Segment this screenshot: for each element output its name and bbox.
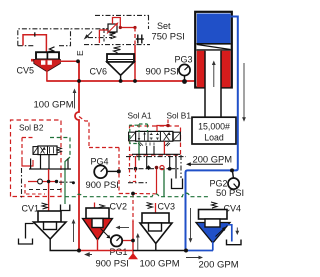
svg-text:Sol B2: Sol B2 xyxy=(19,123,44,133)
green pilot stubs above valve A1 xyxy=(130,124,148,144)
svg-text:CV6: CV6 xyxy=(90,67,108,77)
relief pilot loop red xyxy=(99,18,135,44)
Sol A1 B1 enclosure red dashed xyxy=(130,126,181,155)
svg-text:PG3: PG3 xyxy=(175,55,193,65)
junction dots bottom xyxy=(77,249,81,253)
pilot line PG1 red solid lower xyxy=(132,221,134,254)
junction dots on main line xyxy=(77,79,81,83)
annotation arrow down at CV4 tank xyxy=(235,228,239,236)
red pilot line to Sol B2 xyxy=(22,138,35,197)
svg-text:15,000#: 15,000# xyxy=(198,122,230,132)
junction dot CV5-CV6 link xyxy=(76,59,80,63)
wire relief to main line xyxy=(134,28,136,82)
flow arrow up at 100 GPM xyxy=(136,233,140,250)
tank symbol CV4 xyxy=(227,240,242,245)
svg-text:Sol B1: Sol B1 xyxy=(167,111,192,121)
svg-text:PG1: PG1 xyxy=(110,247,128,257)
check valve CV6 xyxy=(107,47,134,82)
wire red pilot box to CV5 xyxy=(23,32,46,52)
boundary dash-dot under valve A1B1 xyxy=(126,155,186,178)
red pilot into CV3 xyxy=(155,203,157,213)
flow arrow left of CV3 xyxy=(116,226,130,230)
tank symbol Sol B2 drain xyxy=(61,205,70,211)
svg-text:100 GPM: 100 GPM xyxy=(34,100,74,111)
junction dot PG2 stem xyxy=(230,168,234,172)
Sol B2 enclosure red dashed xyxy=(11,120,62,197)
svg-text:PG4: PG4 xyxy=(91,157,109,167)
label 200 GPM top with arrow xyxy=(186,154,232,167)
svg-text:900 PSI: 900 PSI xyxy=(96,258,129,269)
wire CV4 right port to tank blue xyxy=(227,225,232,242)
svg-text:200 GPM: 200 GPM xyxy=(193,154,233,165)
junction dots row xyxy=(134,167,138,171)
wire CV4 outlet blue xyxy=(212,242,214,251)
gauge PG2 xyxy=(228,170,239,189)
bottom manifold line black left xyxy=(50,250,80,252)
svg-text:100 GPM: 100 GPM xyxy=(140,259,180,270)
svg-text:Set: Set xyxy=(157,21,171,31)
tank symbol CV1 xyxy=(19,239,33,245)
valve A1B1 port wires below xyxy=(132,141,180,160)
wire CV2 outlet red xyxy=(97,239,99,251)
pilot supply wire to CV1 xyxy=(48,169,50,211)
red pilot stubs above valve B1 xyxy=(157,120,168,132)
small arrow left under line xyxy=(85,253,92,256)
main supply line horizontal xyxy=(46,80,195,82)
green drain long line xyxy=(65,193,209,197)
solenoid valve Sol B2 xyxy=(33,146,62,155)
arrow right bottom xyxy=(186,256,203,260)
check valve CV1 xyxy=(34,211,67,239)
wire CV3 outlet xyxy=(155,243,157,251)
port wires between header and dot row xyxy=(136,154,177,196)
red pilot tick into CV2 xyxy=(94,203,96,209)
label 100 GPM top with arrow xyxy=(34,89,77,111)
bottom manifold line blue xyxy=(186,250,214,252)
svg-text:Sol A1: Sol A1 xyxy=(128,111,152,121)
manifold boundary dash-dot box top-left xyxy=(18,15,150,45)
svg-text:900 PSI: 900 PSI xyxy=(86,179,119,190)
red arrow marker bottom xyxy=(128,253,138,259)
load box 15,000# xyxy=(192,117,236,144)
svg-text:200 GPM: 200 GPM xyxy=(199,260,239,271)
pilot network red dashed around PG4 xyxy=(79,117,156,223)
gauge PG4 xyxy=(94,165,119,178)
bottom manifold line black right xyxy=(133,250,186,252)
gauge PG3 xyxy=(179,64,190,81)
solenoid valve A1 B1 xyxy=(129,131,181,146)
bottom manifold line red xyxy=(79,250,133,252)
junction dot PG4 stem xyxy=(117,169,121,173)
gauge PG1 xyxy=(111,235,133,246)
wire CV5 outlet to main line xyxy=(47,61,79,81)
red pilot below valve B1 left xyxy=(130,157,136,182)
svg-text:CV5: CV5 xyxy=(17,66,35,76)
check valve CV3 xyxy=(140,213,172,244)
svg-text:CV2: CV2 xyxy=(110,202,128,212)
wire CV1 side port to tank xyxy=(26,224,34,239)
junction dot main riser top of B2 area xyxy=(72,181,75,184)
inner boundary dash-dot with orifice xyxy=(22,168,148,199)
annotation arrow down right of cylinder xyxy=(242,63,246,122)
cylinder rod xyxy=(205,51,221,117)
cylinder barrel xyxy=(195,12,232,88)
check valve CV2 xyxy=(83,208,113,240)
check valve CV4 xyxy=(196,210,230,244)
svg-text:750 PSI: 750 PSI xyxy=(152,31,185,42)
junction dot pilot elbow xyxy=(131,192,135,196)
boundary arrow xyxy=(84,32,92,40)
annotation arrow down left of CV4 xyxy=(189,208,193,243)
wire CV1 outlet xyxy=(49,238,51,251)
tank symbol A1B1 drain xyxy=(172,179,183,189)
svg-text:Load: Load xyxy=(204,133,224,143)
valve B2 port wires xyxy=(29,155,71,169)
check symbol near relief xyxy=(136,35,144,44)
relief valve square xyxy=(107,22,119,39)
svg-text:900 PSI: 900 PSI xyxy=(146,66,179,77)
flow arrow up between CV1 CV2 xyxy=(72,219,76,242)
junction dot PG1 xyxy=(131,239,135,243)
blue line cylinder cap to rod side xyxy=(186,17,238,251)
check valve CV5 xyxy=(31,47,60,72)
svg-text:CV3: CV3 xyxy=(158,202,176,212)
svg-text:CV1: CV1 xyxy=(22,204,40,214)
svg-text:E: E xyxy=(75,50,85,56)
green drain line Sol B2 xyxy=(50,138,70,205)
rod flow arrow xyxy=(212,61,216,88)
main supply riser xyxy=(75,61,79,250)
junction dot red stub xyxy=(166,124,170,128)
relief junction dots xyxy=(119,26,122,29)
svg-text:50 PSI: 50 PSI xyxy=(216,187,244,198)
